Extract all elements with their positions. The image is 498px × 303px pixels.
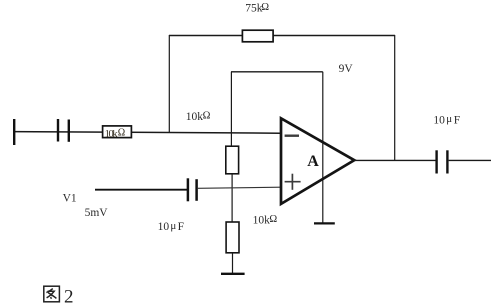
svg-text:Ω: Ω [269,214,277,225]
svg-text:F: F [178,221,184,233]
svg-text:75k: 75k [245,2,263,14]
svg-text:10k: 10k [186,111,204,123]
caption figure 2 glyph tu [44,286,60,302]
svg-text:9V: 9V [339,63,354,75]
svg-text:10k: 10k [105,129,119,140]
wire between R2 and R3 [231,174,233,222]
op-amp minus input marker [285,134,299,136]
wire main input horizontal [13,132,281,134]
svg-text:5mV: 5mV [85,207,109,219]
svg-text:10k: 10k [253,215,271,227]
svg-text:10: 10 [158,221,170,233]
wire feedback right vertical [394,35,396,160]
svg-text:V1: V1 [63,192,77,204]
svg-text:A: A [307,153,319,170]
svg-text:Ω: Ω [261,2,269,13]
capacitor C1 plate left [57,119,59,142]
svg-text:μ: μ [446,113,452,125]
wire output horizontal [354,159,436,161]
wire feedback left vertical [168,35,170,132]
svg-text:F: F [454,114,460,126]
resistor R2 vertical box [226,146,239,174]
terminal bar left [13,119,15,145]
wire output after capacitor [449,159,491,161]
capacitor C2 plate left [187,178,190,201]
svg-text:Ω: Ω [203,111,211,122]
ground under op-amp [314,222,335,224]
op-amp U1 triangle [281,118,354,204]
resistor R-feedback box 75k [242,30,273,42]
wire 9V rail right vertical down through op-amp to ground [322,72,324,224]
wire 9V rail left vertical down to R2 [230,72,232,147]
capacitor C2 plate right [195,179,198,201]
svg-text:2: 2 [64,286,74,303]
svg-text:μ: μ [170,220,176,232]
wire top feedback horizontal [169,35,395,37]
svg-text:Ω: Ω [118,128,125,139]
wire 9V rail horizontal [231,71,323,73]
ground under R3 [221,273,245,275]
wire below R3 [232,253,234,274]
wire V1 source horizontal [95,189,187,191]
svg-text:10: 10 [433,114,445,126]
capacitor C3 plate right [446,150,448,173]
capacitor C3 plate left [435,150,437,173]
resistor R1 box with value inside [103,126,132,138]
op-amp plus input marker [285,181,301,183]
wire capacitor to plus input [198,187,281,188]
capacitor C1 plate right [68,120,70,142]
resistor R3 vertical box [226,222,239,253]
